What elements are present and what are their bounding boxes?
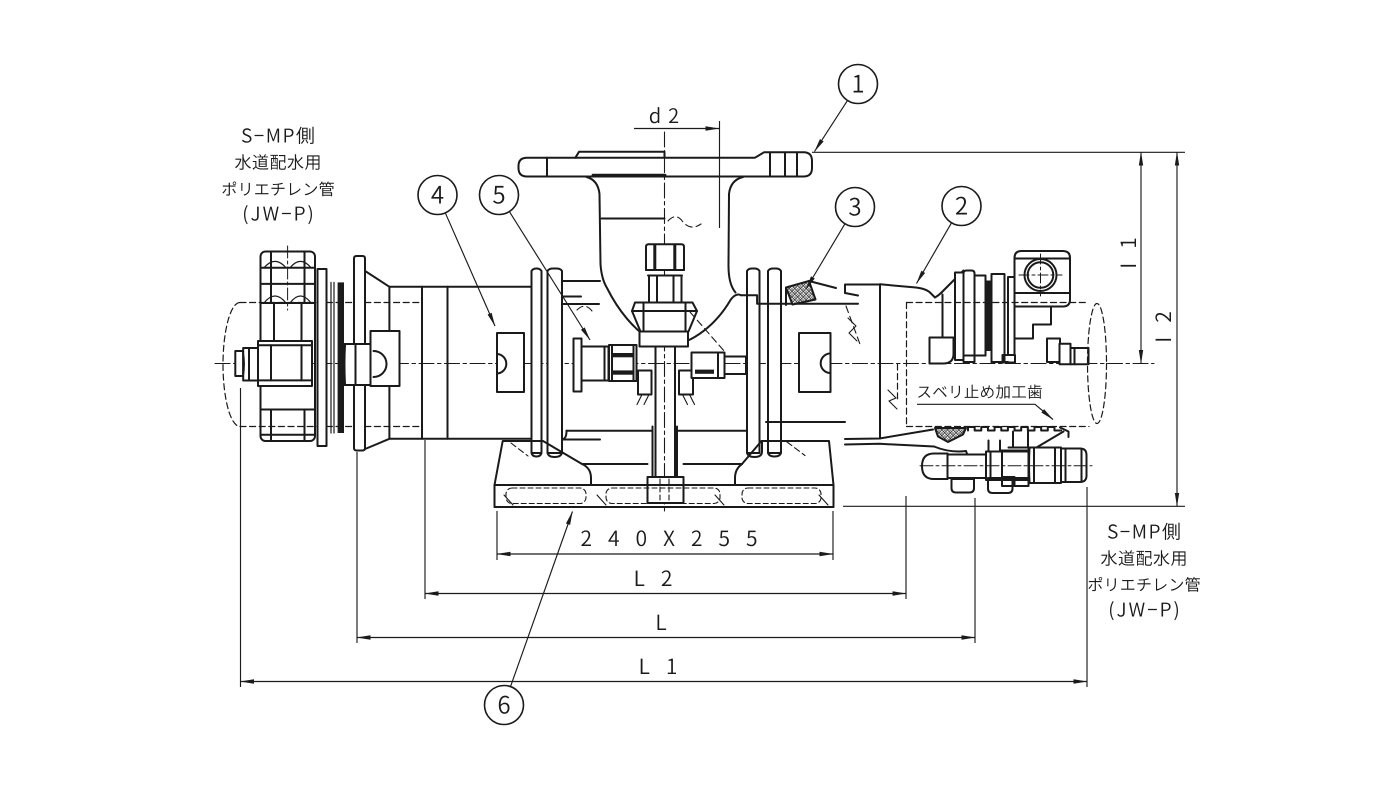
leader 2 [917, 223, 952, 283]
clamp bolt mid nuts [986, 452, 1029, 481]
right coupling top profile [880, 284, 941, 297]
centre fitting: right saddle legs [747, 269, 760, 454]
centre fitting: left saddle legs [532, 269, 542, 454]
text: balloon digit 4 [431, 186, 443, 204]
right coupling front plate [955, 273, 964, 361]
leader 5 [510, 212, 590, 340]
centre fitting: left bolt lug [497, 333, 524, 392]
right coupling gland plate [964, 271, 975, 363]
text: left JP line3 [222, 182, 334, 197]
bottom reference line for I2 [843, 505, 1185, 507]
base chamfer marks [504, 495, 828, 505]
right coupling plate C [992, 274, 1005, 362]
left coupling thin rings [331, 282, 334, 433]
right bell mouth [845, 285, 880, 294]
right coupling side bolt [1060, 344, 1071, 364]
right clamp serrated teeth [968, 427, 1061, 431]
leader 6 [511, 512, 573, 687]
text: dim 240x255 [581, 530, 756, 546]
I1 dimension line [1140, 152, 1142, 363]
left coupling side bolt head [243, 348, 258, 381]
stem neck [649, 276, 682, 303]
slip-stop label underline and leader [917, 404, 1053, 419]
left coupling plate 1 [318, 269, 327, 446]
text: balloon digit 5 [493, 186, 504, 204]
housing lower bracket [1003, 307, 1061, 363]
horizontal pipe centerline [215, 363, 1154, 365]
right coupling taper [941, 271, 964, 294]
right clamp rubber wedge [935, 428, 966, 442]
right outlet step [741, 295, 858, 303]
left coupling side bolt nut block [258, 341, 312, 386]
left coupling: gland ring body [261, 252, 316, 442]
balloon circles [418, 65, 981, 725]
dome wall and bowl [587, 177, 742, 346]
stem rod [656, 347, 676, 477]
clamp bolt hex nut [1029, 448, 1062, 484]
balloon leaders [446, 101, 952, 686]
saddle base right trapezoid [742, 441, 834, 485]
clamp bolt end cap [1061, 449, 1087, 483]
left PE pipe (hidden, phantom) [223, 303, 422, 427]
text: left JP line4 [244, 205, 312, 224]
L extension lines [357, 452, 975, 643]
left stem bolt shaft [582, 347, 609, 381]
clamp bolt head [922, 454, 948, 480]
240x255 extension lines [497, 511, 833, 560]
L dimension line [357, 637, 975, 639]
vertical branch centerline [664, 132, 666, 512]
leader 4 [446, 213, 496, 326]
packing gland hex [632, 303, 697, 332]
L2 dimension line [425, 593, 906, 595]
text: left JP line2 [235, 154, 320, 170]
text: dim L [658, 615, 667, 630]
left coupling neck [274, 303, 302, 341]
right PE pipe (phantom) [898, 303, 1107, 427]
flange underside seam (section) [593, 174, 665, 177]
section break dashes [577, 217, 861, 352]
top flange raised boss (left half-section) [575, 152, 664, 158]
clamp under nuts [952, 479, 975, 493]
text: dim I2 [1155, 312, 1171, 340]
right coupling plate D [1008, 277, 1015, 355]
rubber wedge (item 3) [786, 281, 816, 305]
saddle leg feet [532, 441, 542, 457]
text: balloon digit 1 [854, 75, 863, 93]
left coupling plate 2 [354, 256, 365, 451]
bell break zigzag [848, 318, 857, 341]
clamp bolt shank [948, 455, 987, 479]
dome ceiling (section) [602, 218, 665, 220]
left coupling taper and body [365, 271, 531, 287]
L1 extension lines [241, 388, 1088, 687]
text: right JP line4 [1110, 601, 1178, 620]
top flange bolt ticks [547, 153, 797, 177]
text: right JP line3 [1088, 577, 1200, 592]
text: right JP line1 [1108, 523, 1180, 540]
base hidden edge dashes [511, 442, 805, 456]
L1 dimension line [241, 681, 1088, 683]
left coupling rubber gasket (solid) [338, 282, 344, 433]
stem cap nut [646, 244, 684, 270]
left stem bolt washer [574, 339, 582, 392]
text: right JP line2 [1101, 550, 1186, 566]
saddle base middle pad [582, 464, 742, 485]
240x255 dimension line [497, 553, 833, 555]
right coupling plate B [975, 276, 986, 356]
text: left JP line1 [242, 127, 314, 144]
text: dim L1 [641, 659, 676, 674]
centre fitting: right bolt lug [799, 333, 831, 392]
L2 extension lines [425, 440, 906, 599]
leader 3 [806, 224, 845, 289]
top flange slab [519, 152, 813, 176]
d2 dimension [634, 128, 719, 130]
left lip [562, 280, 600, 282]
top reference line [812, 151, 1185, 153]
left stem hex nut [609, 345, 637, 381]
gland base [640, 332, 689, 347]
right coupling bolt housing [1015, 251, 1071, 307]
left coupling lug [371, 331, 400, 386]
left coupling side bolt tip [235, 351, 243, 376]
text: balloon digit 2 [956, 197, 967, 215]
text: dim I1 [1121, 239, 1136, 267]
saddle base plate [495, 485, 834, 507]
right coupling rubber gasket (solid) [986, 281, 992, 352]
centre fitting: top edge left of dome [562, 439, 600, 441]
I2 dimension line [1176, 152, 1178, 506]
left coupling axis nut [344, 344, 371, 385]
clamp bolt centreline [920, 465, 1092, 467]
housing bolt hole [1025, 259, 1057, 291]
stem foot [653, 427, 678, 478]
base hidden pockets [506, 488, 821, 504]
text: balloon digit 3 [849, 198, 860, 216]
stem collars [638, 371, 652, 395]
leader 1 [815, 101, 848, 152]
right stem bolt (horizontal) [692, 353, 725, 379]
text: balloon digit 6 [499, 696, 510, 714]
dome right wall (exterior) [728, 177, 743, 293]
text: dim L2 [636, 570, 672, 586]
text: dim d2 [650, 107, 678, 123]
left coupling top nut centreline [287, 246, 289, 310]
saddle base left trapezoid [495, 441, 592, 485]
right clamp body [934, 441, 1030, 463]
text: label slip-stop teeth [918, 385, 1042, 399]
saddle casting skirt bottom edge [567, 430, 748, 432]
right clamp tail [845, 430, 933, 440]
